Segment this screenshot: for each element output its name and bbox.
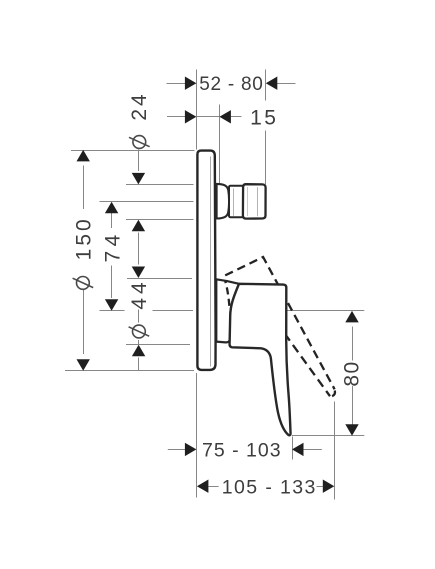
label dia symbol of 44 [129,325,150,338]
wire extension line wall-plane bottom [196,373,198,498]
wire extension line sleeve bottom (44 dim) [126,344,190,346]
cap highlight lines [247,187,249,216]
svg-text:15: 15 [250,106,278,129]
arrow 74 bottom [105,299,118,311]
wire extension line handle tip (75-103) [292,437,294,460]
wire extension line plate bottom [65,370,194,372]
label dia symbol of 24 [129,136,150,149]
wire extension line handle axis right (80 dim top) [287,310,364,312]
wire extension line dashed-handle tip (105-133) [334,402,336,500]
arrow 52-80 left [185,77,197,90]
arrow 75-103 right [292,443,304,456]
handle sleeve (lever escutcheon, side view) [216,279,239,342]
arrow 105-133 left [197,480,209,493]
svg-text:24: 24 [128,91,151,120]
wire extension line plate top [71,150,195,152]
ring highlight line [233,189,235,216]
dashed raised-handle sleeve edge [225,281,229,307]
arrow 80 top [345,311,358,323]
arrow dia150 top [77,150,90,162]
arrow dia44 top [132,267,145,279]
arrow 75-103 left [185,443,197,456]
wire shaft 80 upper [352,327,354,361]
wire shaft dia24 above [138,150,140,172]
wire tail 75-103 right [303,449,322,451]
handle grip and lever [230,284,291,435]
wire extension line handle axis left b [153,310,194,312]
wire tail 52-80 right [277,83,296,85]
arrow dia44 bottom [132,345,145,357]
arrow dia24 top [132,173,145,185]
wire extension line knob axis [100,201,194,203]
svg-text:150: 150 [72,216,95,260]
svg-text:74: 74 [102,230,125,262]
wire dimension line 15 [197,116,220,118]
wire extension line knob front upper [265,70,267,101]
arrow 15 left [185,110,197,123]
arrow dia24 bottom [132,220,145,232]
wire shaft dia44 text gap [138,310,140,323]
arrow 105-133 right [323,480,335,493]
wire shaft 74 lower [111,266,113,299]
wire shaft dia44 below phi [138,340,140,344]
wire tail 105-133 right [317,486,323,488]
wire tail 75-103 left [168,449,185,451]
svg-text:44: 44 [128,278,151,309]
arrow 52-80 right [266,77,278,90]
wire extension line knob top [126,184,194,186]
wire tail 15 right [231,116,242,118]
arrow 15 right [219,110,231,123]
diverter knob cap [243,184,266,218]
diverter cone on plate [217,184,230,219]
wire extension line 80 dim bottom [292,435,365,437]
wire shaft dia150 upper [83,166,85,210]
wire shaft 80 lower [352,386,354,425]
wire tail 15 left [167,116,185,118]
wire shaft dia44 bottom leader [138,358,140,371]
wire extension line sleeve top (44 dim) [127,278,192,280]
dashed raised-handle top and right edge [225,257,334,389]
wall plate (escutcheon, side view) [197,151,215,370]
diverter ring [229,186,243,218]
svg-text:80: 80 [341,360,364,386]
label dia symbol of 150 [73,277,94,290]
wire extension line knob bottom [126,219,194,221]
wire extension line knob base (15 dim) [219,105,221,184]
wire shaft dia24-dia44 middle [138,233,140,265]
dashed raised-handle tip [331,391,336,397]
wire tail 52-80 left [167,83,186,85]
wire shaft 74 upper [111,213,113,228]
dashed raised-handle lever underside [252,306,330,396]
svg-text:105 - 133: 105 - 133 [222,477,317,499]
arrow 74 top [105,202,118,214]
plate front highlight line [210,157,212,367]
svg-text:52 - 80: 52 - 80 [199,74,263,95]
arrow 80 bottom [345,424,358,436]
svg-text:75 - 103: 75 - 103 [202,440,282,462]
arrow dia150 bottom [77,359,90,371]
wire extension line wall-plane top [196,70,198,150]
wire shaft dia150 lower [83,289,85,355]
wire tail 105-133 left [208,486,218,488]
wire extension line handle axis left a [100,310,125,312]
wire extension line knob front lower [265,131,267,185]
